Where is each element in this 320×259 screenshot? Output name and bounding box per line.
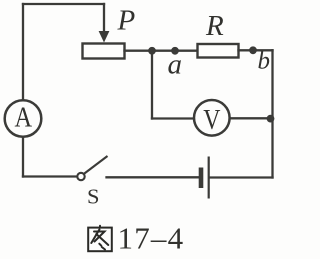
svg-text:b: b — [258, 48, 271, 75]
caption text 17-4 — [118, 221, 185, 256]
node b — [249, 46, 257, 54]
label S — [87, 184, 100, 208]
wire R right to top-right corner — [239, 49, 273, 51]
battery negative plate (short) — [199, 168, 204, 189]
wire top-left horizontal — [23, 3, 104, 5]
label a — [168, 48, 183, 80]
wire voltmeter branch left horizontal — [152, 117, 194, 119]
svg-text:V: V — [203, 104, 220, 136]
svg-text:a: a — [168, 48, 183, 80]
wire voltmeter branch vertical — [151, 51, 153, 119]
wire voltmeter to right vertical — [230, 117, 273, 119]
wire switch to battery — [107, 176, 200, 178]
battery positive plate (long) — [208, 157, 210, 199]
label R — [205, 10, 224, 42]
svg-text:R: R — [205, 10, 224, 42]
wire right vertical — [271, 50, 273, 177]
svg-text:17–4: 17–4 — [118, 221, 185, 256]
node junction left of a — [148, 47, 156, 55]
node a — [171, 47, 179, 55]
potentiometer P wiper arrowhead — [99, 31, 110, 43]
wire P right to node a — [125, 50, 198, 52]
ammeter A — [5, 100, 42, 137]
wire wiper drop to P — [103, 4, 105, 32]
svg-text:S: S — [87, 184, 100, 208]
resistor R body — [198, 44, 239, 58]
svg-text:P: P — [117, 5, 136, 37]
wire ammeter to bottom corner — [22, 138, 24, 177]
label P — [117, 5, 136, 37]
potentiometer P body — [83, 44, 125, 59]
switch S lever — [84, 156, 107, 174]
label b — [258, 48, 271, 75]
wire left vertical — [22, 4, 24, 100]
voltmeter V — [194, 100, 230, 136]
svg-text:A: A — [15, 102, 33, 134]
wire bottom-left horizontal to switch — [23, 175, 78, 177]
caption character 图 — [88, 226, 112, 251]
wire battery to bottom-right corner — [210, 176, 273, 178]
switch S pivot — [77, 173, 84, 180]
node junction voltmeter-right vertical — [267, 115, 275, 123]
